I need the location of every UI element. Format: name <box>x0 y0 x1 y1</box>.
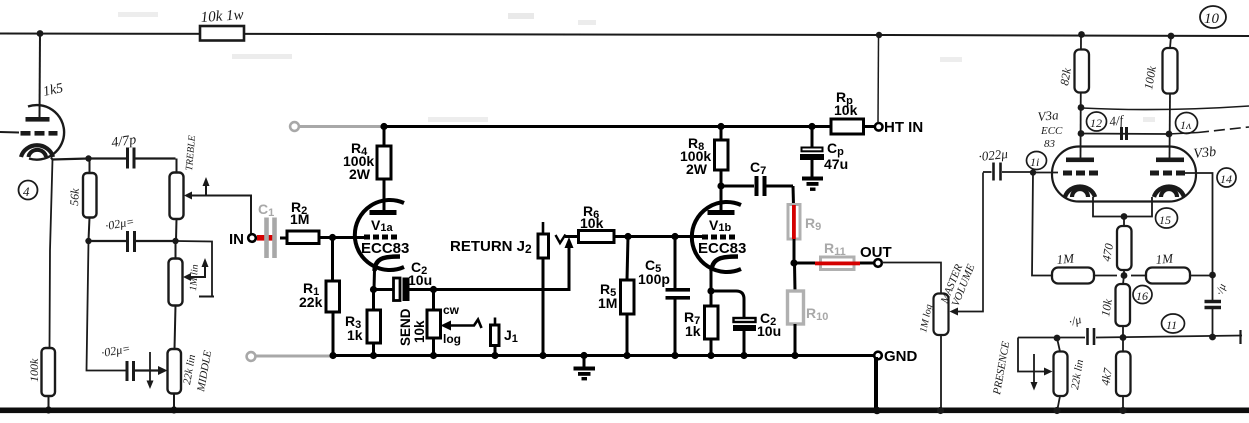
node junction R5 <box>624 233 631 240</box>
svg-text:·022μ: ·022μ <box>978 146 1009 164</box>
node junction middle pot at bus <box>170 406 177 413</box>
svg-text:11: 11 <box>1166 318 1177 332</box>
node junction 1M row center <box>1121 272 1128 279</box>
tube V3 envelope <box>1052 147 1196 202</box>
resistor 4k7 <box>1122 338 1124 352</box>
node 4 (circled) <box>19 181 38 200</box>
node 13 (circled) <box>1176 113 1198 134</box>
node 16 (circled) <box>1133 286 1152 304</box>
node junctions presence row <box>1054 335 1061 342</box>
wire top HT bus line <box>0 34 1249 37</box>
tube V3a grid dashes <box>1063 171 1072 176</box>
svg-text:2W: 2W <box>686 161 708 177</box>
potentiometer TREBLE <box>170 173 184 220</box>
node junction R2/R1 <box>329 234 336 241</box>
node 11 (circled) <box>1027 152 1047 170</box>
node junction top at HT IN drop <box>876 32 882 38</box>
resistor R9 (gray, jumpered) <box>792 186 796 205</box>
wire GND drop to bus <box>874 357 878 408</box>
node junction top-left <box>37 30 44 37</box>
wire V3b plate lead <box>1169 94 1172 158</box>
capacitor 4/7p <box>89 157 127 159</box>
potentiometer SEND 10k <box>432 290 435 311</box>
node junction SEND top <box>430 286 437 293</box>
resistor R3 <box>372 290 375 311</box>
svg-text:10k: 10k <box>412 320 427 343</box>
node junctions on ground rail <box>329 352 336 359</box>
resistor 56k (left) <box>83 173 97 218</box>
capacitor .1u (presence row) <box>1086 328 1089 345</box>
resistor R4 <box>383 127 386 147</box>
node 10 (circled) <box>1200 6 1226 28</box>
terminal OUT <box>874 259 882 267</box>
tube V1a grid dashes <box>364 235 370 240</box>
node junction at bus <box>45 406 52 413</box>
tube V1b cathode <box>712 257 739 272</box>
resistor 100k (left bottom) <box>42 348 56 396</box>
wire treble wiper to IN <box>206 196 251 234</box>
node 15 (circled) <box>1156 208 1178 228</box>
svg-text:2W: 2W <box>349 166 371 182</box>
svg-text:14: 14 <box>1220 172 1232 186</box>
wire cathodes link <box>1093 197 1152 217</box>
node junction V3b plate <box>1166 131 1173 138</box>
tube V1a cathode <box>375 257 401 272</box>
wire send bus to R6 arrow <box>434 246 570 290</box>
capacitor .1u (right) <box>1212 275 1214 300</box>
resistor 82k <box>1075 50 1090 93</box>
wire V1b cathode lead <box>710 270 713 291</box>
svg-text:RETURN J2: RETURN J2 <box>450 238 532 256</box>
tube V? envelope arc <box>28 105 64 160</box>
node junction master at bus <box>937 407 944 414</box>
tube V3b cathode <box>1154 187 1184 197</box>
tube V? grid dashes <box>21 131 31 136</box>
tube V1b envelope <box>692 202 741 272</box>
wire cathode to node <box>51 158 89 160</box>
svg-text:56k: 56k <box>67 187 82 206</box>
svg-text:10u: 10u <box>408 272 432 288</box>
wire gray lower rail <box>256 355 332 358</box>
svg-text:ECC83: ECC83 <box>698 240 746 257</box>
potentiometer MIDDLE 22k lin <box>168 349 182 394</box>
node 12 (circled) <box>1087 112 1107 131</box>
capacitor .02u (lower) <box>126 361 129 381</box>
node junction R4 top <box>380 123 387 130</box>
svg-text:16: 16 <box>1136 289 1148 303</box>
svg-text:10k: 10k <box>580 215 604 231</box>
wire left tube plate feed <box>39 34 42 118</box>
tube V3b plate <box>1156 158 1184 163</box>
node junction C7 tap <box>717 182 724 189</box>
resistor 1M (left) <box>1052 268 1094 284</box>
ground symbol (Cp) <box>802 177 823 181</box>
svg-text:ECC: ECC <box>1040 125 1063 137</box>
wire OUT to master volume <box>882 263 941 294</box>
svg-text:10k: 10k <box>834 102 858 118</box>
wire HT IN to top bus (thin) <box>877 38 880 123</box>
resistor 10k 1W (top) <box>200 26 244 41</box>
svg-text:1M: 1M <box>1056 250 1076 267</box>
node 17 (circled) <box>1162 314 1185 333</box>
wire HT rail gray segment <box>299 125 383 128</box>
tube V3a cathode <box>1065 187 1095 197</box>
svg-text:10u: 10u <box>757 323 781 339</box>
tube V1a plate <box>370 210 397 215</box>
wiper mark middle pot <box>149 352 151 385</box>
wire V3b grid to 1M row <box>1185 173 1213 275</box>
ground bus (bottom, thick) <box>0 408 1249 414</box>
tube V3a plate <box>1066 158 1094 163</box>
svg-text:83: 83 <box>1044 138 1056 150</box>
svg-text:OUT: OUT <box>860 244 892 261</box>
tube V? cathode arcs <box>21 145 53 157</box>
wire plate aux line <box>1082 106 1249 110</box>
svg-text:12: 12 <box>1090 116 1102 130</box>
svg-text:1M: 1M <box>598 295 617 311</box>
terminal HT rail left (gray) <box>290 122 299 131</box>
capacitor C5 <box>674 237 677 289</box>
capacitor C7 <box>721 185 754 188</box>
wire drop to 1M row <box>1032 173 1052 276</box>
node junction cathodes <box>1121 213 1128 220</box>
tube V3b grid dashes <box>1150 171 1159 176</box>
svg-text:V3a: V3a <box>1037 107 1060 124</box>
potentiometer MASTER VOLUME 1M log <box>934 294 949 336</box>
resistor R11 (gray, jumpered) <box>794 262 816 265</box>
node junction cathode/C2 <box>370 286 377 293</box>
wire bass tap stub <box>176 241 213 296</box>
jack J2 <box>542 222 545 234</box>
wire HT rail black segment <box>383 125 831 128</box>
svg-text:GND: GND <box>884 348 918 365</box>
wire left drop to middle wiper <box>87 241 126 371</box>
potentiometer BASS <box>169 259 183 306</box>
wire grid stub to left edge <box>0 131 19 134</box>
svg-text:HT IN: HT IN <box>884 119 923 136</box>
resistor R7 <box>710 291 713 306</box>
wire grid V3a <box>1033 172 1058 174</box>
node junction C5 <box>671 233 678 240</box>
svg-text:cw: cw <box>443 303 460 317</box>
node junction GND drop at bus <box>873 407 881 415</box>
node junction presence at bus <box>1053 407 1060 414</box>
resistor R10 (gray) <box>793 263 797 291</box>
terminal GND <box>874 352 882 360</box>
svg-text:100k: 100k <box>27 358 41 382</box>
wiper arrow bass <box>189 262 205 277</box>
svg-text:1ʌ: 1ʌ <box>1180 118 1192 132</box>
op-amp n/a : tube V1a envelope <box>355 200 404 270</box>
wiper arrow SEND <box>447 320 482 329</box>
svg-text:V3b: V3b <box>1193 145 1217 162</box>
capacitor 47p <box>1120 127 1123 140</box>
svg-text:1i: 1i <box>1030 155 1039 169</box>
svg-text:10: 10 <box>1204 11 1220 27</box>
wiper mark presence <box>1033 354 1035 386</box>
terminal HT IN <box>875 123 883 131</box>
wiper arrow master <box>956 173 983 312</box>
node junction R7/C2 <box>707 287 714 294</box>
potentiometer PRESENCE 22k lin <box>1057 338 1060 352</box>
node junction top V3b plate <box>1168 33 1175 40</box>
wire anode link row (47p) <box>1081 133 1169 136</box>
resistor R8 <box>717 123 724 130</box>
jack J1 <box>494 318 497 326</box>
node 14 (circled) <box>1217 168 1236 187</box>
svg-text:10k 1w: 10k 1w <box>200 7 244 26</box>
node junction right 1M <box>1209 272 1216 279</box>
terminal gray (lower rail) <box>247 352 256 361</box>
node junction top V3a plate <box>1078 31 1085 38</box>
wire 100k to ground bus <box>48 396 50 409</box>
capacitor Cp <box>811 127 814 149</box>
svg-text:log: log <box>443 332 461 346</box>
resistor 470 (cathode) <box>1123 217 1125 227</box>
capacitor .02u (upper) <box>89 240 127 242</box>
resistor 100k (V3b) <box>1163 48 1178 94</box>
resistor R2 <box>280 237 287 240</box>
node junction 4k7 at bus <box>1119 407 1126 414</box>
svg-text:1k: 1k <box>347 327 363 343</box>
resistor 10k (feedback) <box>1123 276 1124 285</box>
svg-text:SEND: SEND <box>398 308 413 346</box>
wire V3a plate lead <box>1080 35 1083 158</box>
wire cathode drop to 100k <box>50 160 53 349</box>
tube V1b grid dashes <box>702 235 708 240</box>
wire ground rail (clean) <box>331 354 874 357</box>
resistor Rp <box>808 123 815 130</box>
svg-text:22k: 22k <box>299 294 323 310</box>
tube V1b plate <box>708 210 735 215</box>
svg-text:1M: 1M <box>290 211 309 227</box>
switch hook at R6 <box>556 235 566 244</box>
svg-text:1k: 1k <box>685 323 701 339</box>
node junction OUT <box>790 259 797 266</box>
wire V1a cathode lead <box>373 270 377 290</box>
wire 47p row dashed extension <box>1169 133 1199 135</box>
svg-text:47u: 47u <box>824 156 848 172</box>
scan smudges (decorative) <box>508 13 534 19</box>
tube V? (left, hand-drawn) plate <box>26 117 50 122</box>
wiper arrow treble <box>190 181 206 196</box>
resistor 1M (right) <box>1131 275 1146 277</box>
wire presence wiper feed <box>1018 338 1046 372</box>
svg-text:ECC83: ECC83 <box>361 240 409 257</box>
resistor R1 <box>331 238 334 282</box>
node junction below 56k <box>85 238 91 244</box>
node junction treble/bass <box>172 238 178 244</box>
svg-text:4: 4 <box>23 184 30 199</box>
node junction cathode net <box>85 155 91 161</box>
svg-text:100p: 100p <box>638 271 670 287</box>
svg-text:15: 15 <box>1159 213 1171 227</box>
ground symbol (center) <box>583 356 586 368</box>
node junction V3a plate taps <box>1078 104 1085 111</box>
resistor R5 <box>627 237 628 281</box>
wire presence row <box>1018 337 1085 339</box>
capacitor C1 (gray, jumpered red) <box>256 237 260 240</box>
svg-text:IN: IN <box>229 231 244 248</box>
svg-text:1M: 1M <box>1155 250 1175 267</box>
capacitor C2 (bypass) <box>711 291 744 318</box>
capacitor C2 (send) <box>374 288 394 291</box>
node junction V3a grid <box>1030 169 1036 175</box>
capacitor .022u <box>983 171 992 173</box>
resistor R6 <box>565 235 579 238</box>
